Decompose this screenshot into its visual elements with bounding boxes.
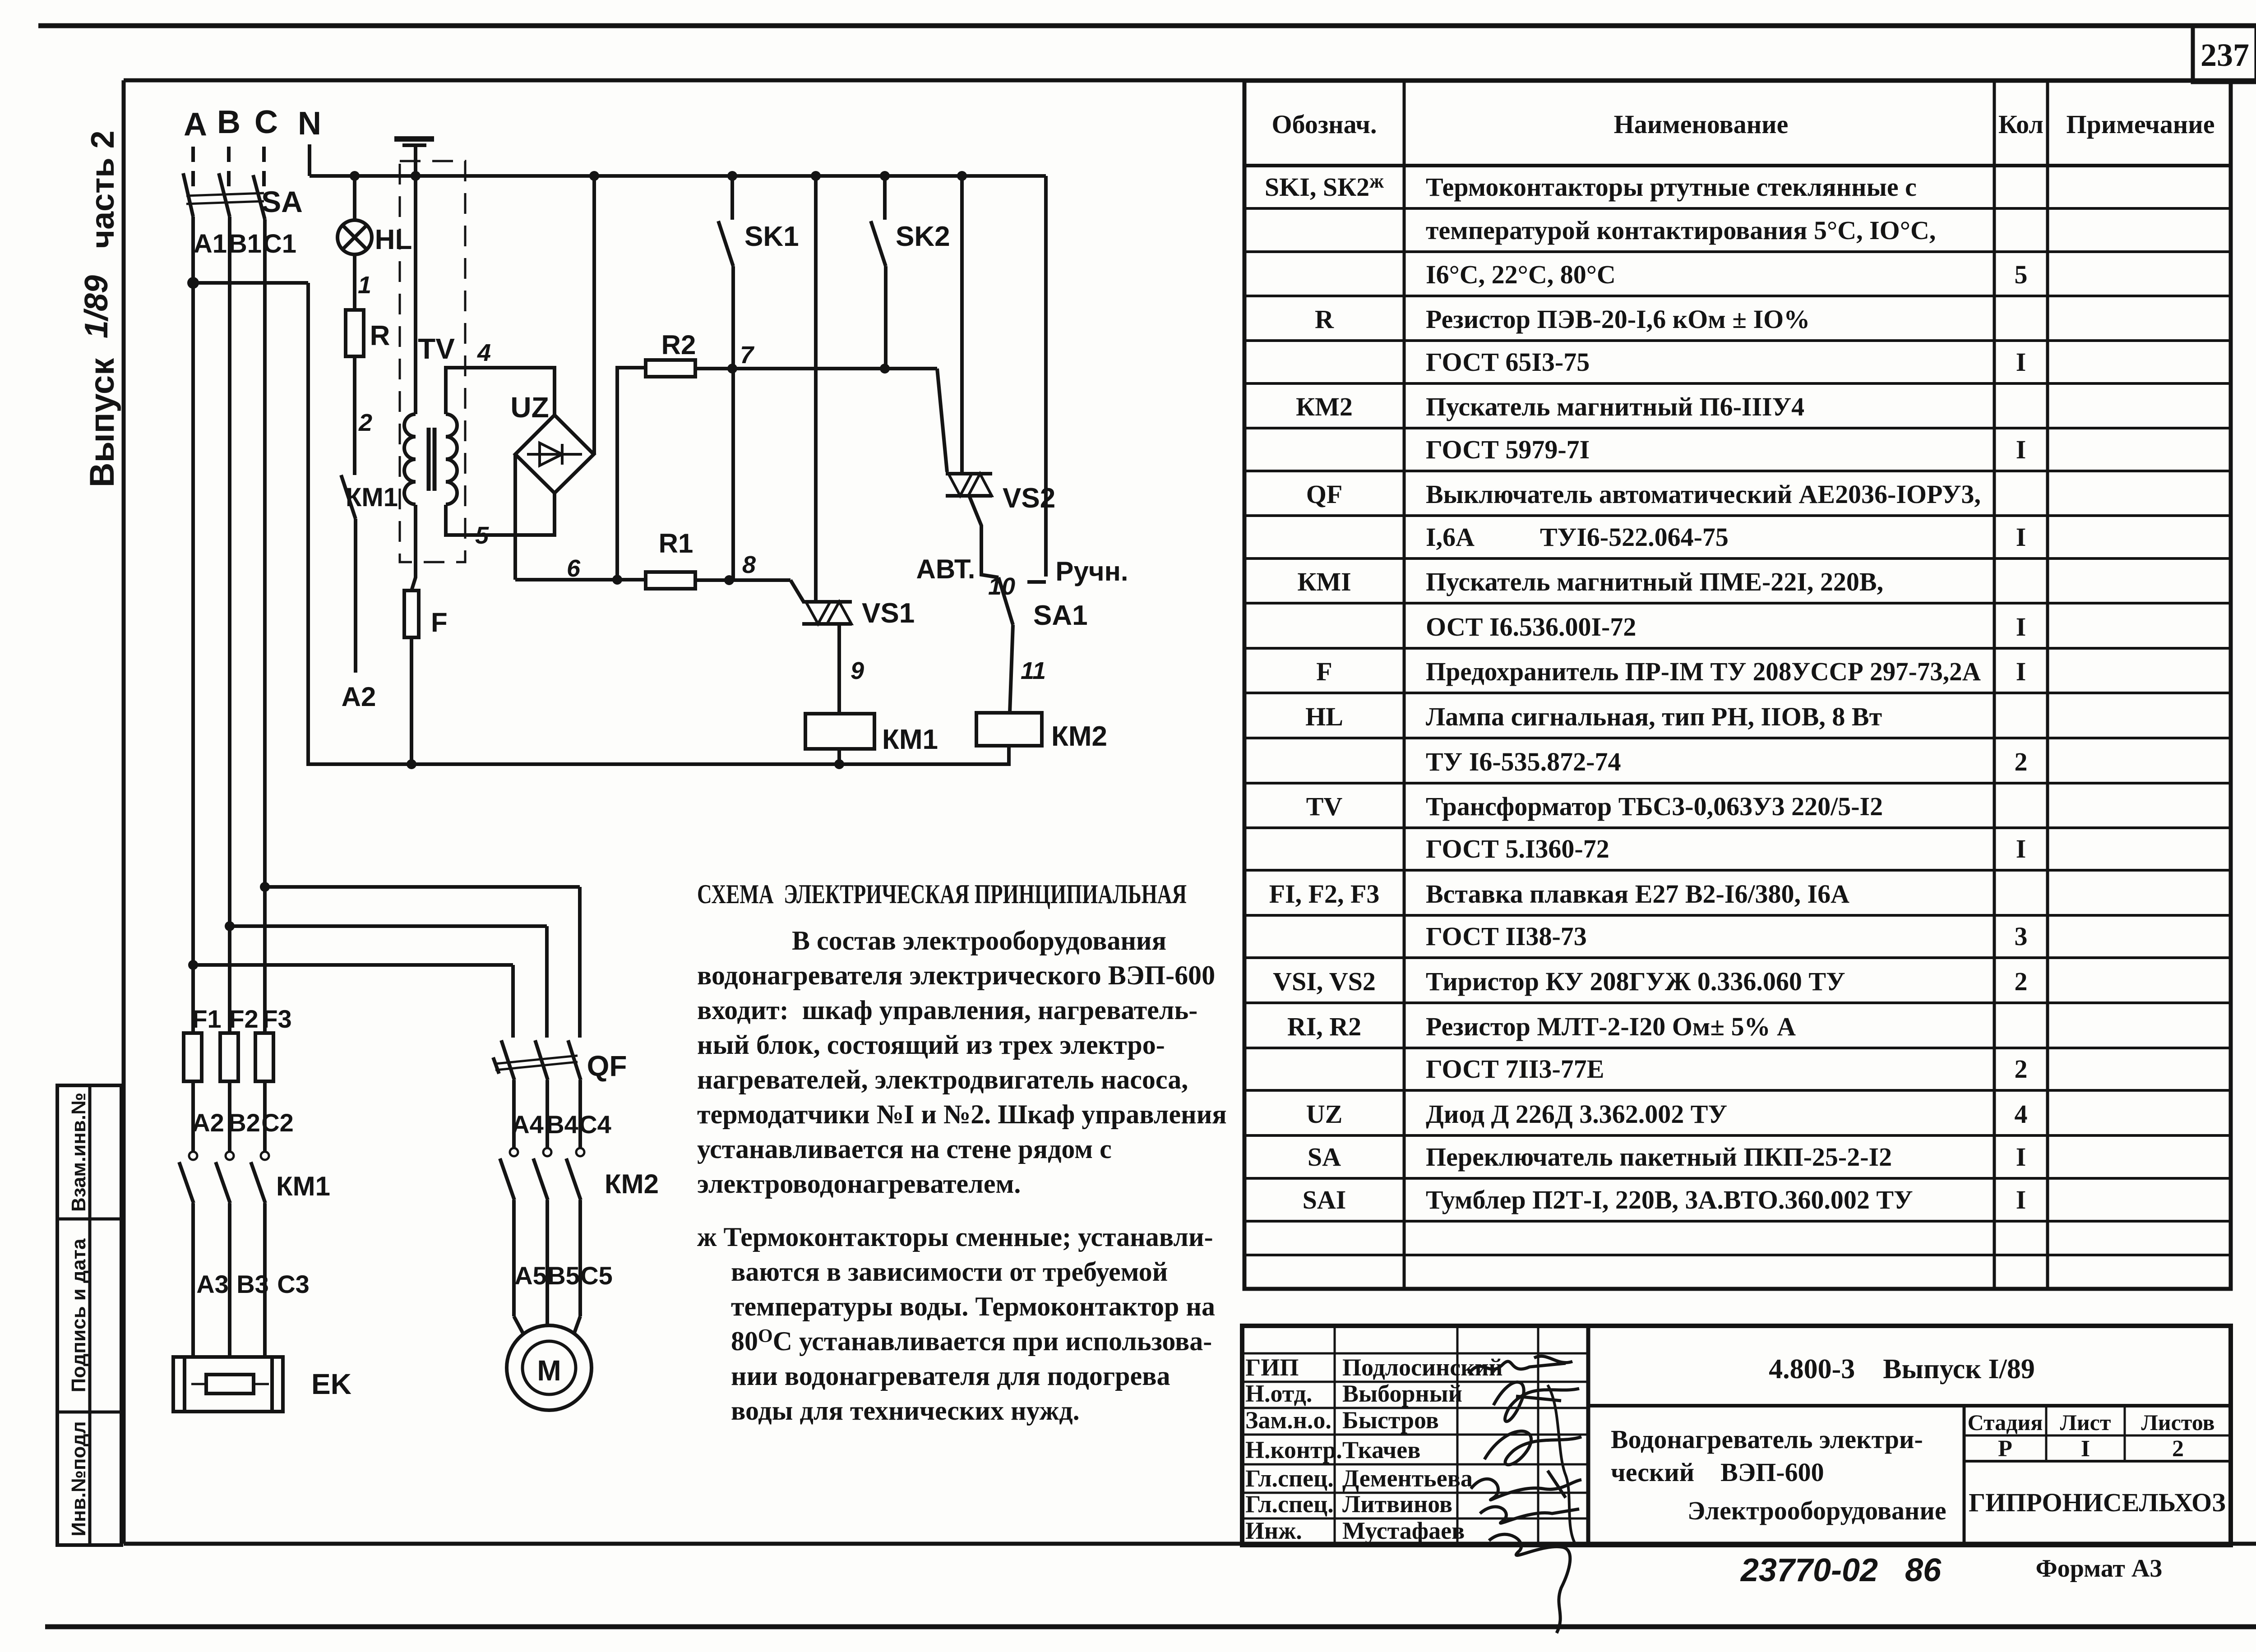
- svg-text:ный блок, состоящий из трех эл: ный блок, состоящий из трех электро-: [697, 1030, 1165, 1060]
- stamp label Взам.инв.№: [68, 1093, 90, 1212]
- wire top bus N y390: [310, 174, 1046, 178]
- thermal contact SK2: [883, 176, 887, 220]
- svg-text:КМ1: КМ1: [346, 483, 398, 512]
- svg-text:1/89: 1/89: [79, 275, 115, 338]
- svg-text:RI, R2: RI, R2: [1287, 1012, 1361, 1041]
- svg-text:В состав электрооборудования: В состав электрооборудования: [792, 926, 1166, 955]
- wire node 1: [353, 254, 356, 310]
- wires KM2 to motor: [512, 1200, 516, 1316]
- svg-text:I: I: [2016, 1185, 2026, 1214]
- svg-text:А: А: [184, 106, 207, 143]
- svg-text:входит: шкаф управления, нагр: входит: шкаф управления, нагреватель-: [697, 995, 1197, 1025]
- svg-text:Мустафаев: Мустафаев: [1342, 1517, 1465, 1544]
- svg-text:HL: HL: [1305, 702, 1343, 731]
- margin note 1/89 (rotated): [79, 275, 115, 338]
- svg-text:Гл.спец.: Гл.спец.: [1245, 1490, 1334, 1518]
- svg-text:Предохранитель ПР-IМ ТУ 208УСС: Предохранитель ПР-IМ ТУ 208УССР 297-73,2…: [1426, 657, 1981, 686]
- svg-text:воды для технических нужд.: воды для технических нужд.: [731, 1396, 1080, 1426]
- svg-text:Выпуск: Выпуск: [83, 358, 121, 487]
- margin note часть 2 (rotated): [85, 130, 121, 248]
- page top scan edge line: [38, 23, 2256, 28]
- svg-text:2: 2: [2015, 967, 2028, 996]
- svg-text:ГОСТ 7II3-77Е: ГОСТ 7II3-77Е: [1426, 1054, 1604, 1084]
- stamp label Подпись и дата: [68, 1238, 90, 1392]
- wire phase B below SA: [228, 217, 231, 1033]
- fuse F: [404, 591, 419, 637]
- svg-text:нии водонагревателя для подогр: нии водонагревателя для подогрева: [731, 1361, 1170, 1391]
- svg-text:5: 5: [475, 522, 489, 549]
- svg-text:Литвинов: Литвинов: [1342, 1490, 1452, 1518]
- svg-text:термодатчики №I и №2. Шкаф упр: термодатчики №I и №2. Шкаф управления: [697, 1099, 1227, 1129]
- svg-text:В2: В2: [228, 1108, 260, 1137]
- svg-text:QF: QF: [587, 1050, 627, 1082]
- svg-text:ОСТ I6.536.00I-72: ОСТ I6.536.00I-72: [1426, 612, 1636, 641]
- wire bottom control bus: [308, 746, 1009, 764]
- page bottom scan edge line: [45, 1624, 2256, 1629]
- svg-text:ГОСТ II38-73: ГОСТ II38-73: [1426, 922, 1587, 951]
- svg-text:ТУ I6-535.872-74: ТУ I6-535.872-74: [1426, 747, 1621, 776]
- svg-text:HL: HL: [375, 224, 412, 255]
- svg-text:Ткачев: Ткачев: [1342, 1436, 1420, 1463]
- svg-text:1: 1: [358, 272, 371, 299]
- svg-text:Подпись и дата: Подпись и дата: [68, 1238, 90, 1392]
- svg-text:ваются в зависимости от требуе: ваются в зависимости от требуемой: [731, 1257, 1168, 1287]
- svg-text:237: 237: [2201, 37, 2249, 73]
- svg-text:КМ1: КМ1: [276, 1171, 330, 1201]
- svg-text:СХЕМА ЭЛЕКТРИЧЕСКАЯ ПРИНЦИПИА: СХЕМА ЭЛЕКТРИЧЕСКАЯ ПРИНЦИПИАЛЬНАЯ: [697, 879, 1187, 909]
- svg-text:Кол: Кол: [1998, 110, 2043, 139]
- contactor coil KM2: [976, 713, 1042, 746]
- transformer TV primary lower wire: [411, 505, 416, 591]
- switch SA linkage bars: [186, 193, 264, 196]
- svg-text:Лампа сигнальная, тип РН, IIОВ: Лампа сигнальная, тип РН, IIОВ, 8 Вт: [1426, 702, 1882, 731]
- svg-text:Н.контр.: Н.контр.: [1245, 1436, 1342, 1463]
- svg-text:В: В: [217, 104, 240, 140]
- svg-text:А2: А2: [342, 682, 376, 712]
- svg-text:Инв.№подл: Инв.№подл: [68, 1421, 90, 1536]
- svg-text:I: I: [2016, 435, 2026, 464]
- svg-text:2: 2: [2015, 747, 2028, 776]
- svg-text:В5: В5: [547, 1261, 580, 1290]
- svg-text:С5: С5: [580, 1261, 613, 1290]
- svg-text:С4: С4: [579, 1110, 611, 1139]
- title block frame: [1242, 1326, 2231, 1545]
- wire node 11: [1010, 625, 1013, 713]
- svg-text:4: 4: [2015, 1099, 2028, 1129]
- svg-text:Водонагреватель электри-: Водонагреватель электри-: [1611, 1425, 1923, 1454]
- svg-text:F: F: [431, 607, 448, 637]
- svg-text:А5: А5: [514, 1261, 547, 1290]
- svg-text:ж Термоконтакторы сменные; уст: ж Термоконтакторы сменные; устанавли-: [697, 1222, 1213, 1252]
- svg-text:SK2: SK2: [896, 221, 950, 252]
- svg-text:F: F: [1316, 657, 1332, 686]
- svg-text:SА: SА: [1308, 1142, 1341, 1172]
- svg-text:F3: F3: [262, 1005, 291, 1033]
- switch SA pole A blade: [183, 173, 193, 217]
- resistor R1: [646, 572, 695, 589]
- wire node 8: [695, 578, 791, 582]
- svg-text:23770-02 86: 23770-02 86: [1740, 1552, 1942, 1588]
- svg-text:А2: А2: [192, 1108, 224, 1137]
- svg-text:F2: F2: [229, 1005, 258, 1033]
- contactor KM2 main contacts: [510, 1148, 518, 1156]
- wire node 10: [969, 496, 999, 577]
- svg-text:Тумблер П2Т-I, 220В, 3А.ВТО.36: Тумблер П2Т-I, 220В, 3А.ВТО.360.002 ТУ: [1426, 1185, 1913, 1214]
- wire feed B to QF: [230, 924, 547, 928]
- svg-text:N: N: [298, 106, 321, 142]
- svg-text:11: 11: [1021, 657, 1046, 684]
- wire node 2: [353, 356, 356, 475]
- wires QF to KM2: [512, 1080, 516, 1148]
- transformer TV primary wire: [414, 176, 417, 414]
- wire node 7: [695, 367, 937, 370]
- svg-text:Взам.инв.№: Взам.инв.№: [68, 1093, 90, 1212]
- svg-text:2: 2: [2015, 1054, 2028, 1084]
- svg-text:I: I: [2016, 612, 2026, 641]
- resistor R: [346, 310, 364, 356]
- switch SA pole B blade: [219, 173, 230, 217]
- svg-text:Н.отд.: Н.отд.: [1245, 1380, 1312, 1407]
- wire control tap bus y627: [191, 281, 308, 285]
- svg-text:ГИП: ГИП: [1245, 1354, 1299, 1381]
- svg-text:Листов: Листов: [2141, 1410, 2215, 1435]
- svg-text:Быстров: Быстров: [1342, 1407, 1439, 1434]
- signature grid: [1242, 1352, 1588, 1355]
- svg-text:Гл.спец.: Гл.спец.: [1245, 1465, 1334, 1492]
- margin note Выпуск (rotated): [83, 358, 121, 487]
- svg-text:SАI: SАI: [1303, 1185, 1346, 1214]
- wire to node A2: [354, 519, 357, 673]
- svg-text:С2: С2: [261, 1108, 294, 1137]
- svg-text:Электрооборудование: Электрооборудование: [1687, 1496, 1946, 1525]
- svg-text:Дементьева: Дементьева: [1342, 1465, 1473, 1492]
- svg-text:В4: В4: [546, 1110, 578, 1139]
- svg-text:КМ2: КМ2: [605, 1169, 659, 1199]
- svg-text:электроводонагревателем.: электроводонагревателем.: [697, 1169, 1021, 1199]
- svg-text:5: 5: [2015, 260, 2028, 289]
- left stamp column box: [57, 1085, 121, 1545]
- ground symbol: [394, 136, 434, 142]
- contact KM1 aux: [341, 475, 356, 519]
- svg-text:Трансформатор ТБС3-0,063У3 220: Трансформатор ТБС3-0,063У3 220/5-I2: [1426, 792, 1883, 821]
- svg-text:SKI, SК2ж: SKI, SК2ж: [1265, 170, 1384, 202]
- svg-text:С: С: [254, 104, 278, 140]
- svg-text:Резистор МЛТ-2-I20 Ом± 5% А: Резистор МЛТ-2-I20 Ом± 5% А: [1426, 1012, 1796, 1041]
- svg-text:Формат А3: Формат А3: [2036, 1555, 2163, 1583]
- motor M: [507, 1325, 592, 1410]
- svg-text:Примечание: Примечание: [2066, 110, 2215, 139]
- svg-text:КМI: КМI: [1297, 567, 1351, 596]
- wire F to bottom bus: [410, 637, 413, 764]
- wire control feed vertical x683: [306, 283, 310, 761]
- svg-text:3: 3: [2015, 922, 2028, 951]
- svg-text:ГОСТ 5979-7I: ГОСТ 5979-7I: [1426, 435, 1590, 464]
- svg-text:С3: С3: [277, 1270, 310, 1298]
- svg-text:Р: Р: [1998, 1436, 2012, 1462]
- svg-text:нагревателей, электродвигатель: нагревателей, электродвигатель насоса,: [697, 1065, 1188, 1094]
- svg-text:R1: R1: [659, 528, 693, 558]
- svg-text:I: I: [2016, 834, 2026, 863]
- svg-text:8: 8: [742, 551, 756, 578]
- svg-text:TV: TV: [418, 332, 455, 365]
- svg-text:ГОСТ 65I3-75: ГОСТ 65I3-75: [1426, 347, 1590, 377]
- wires KM1 to EK: [191, 1203, 195, 1357]
- svg-text:I: I: [2016, 1142, 2026, 1172]
- transformer TV core: [427, 428, 431, 491]
- switch SA pole C blade: [253, 175, 265, 219]
- drawing frame: [124, 78, 2256, 83]
- svg-text:температуры воды. Термоконтакт: температуры воды. Термоконтактор на: [731, 1292, 1215, 1321]
- transformer TV secondary winding: [446, 414, 457, 437]
- wire node 9: [837, 624, 841, 714]
- wire R2 left drop: [617, 368, 646, 580]
- svg-text:температурой контактирования 5: температурой контактирования 5°С, IО°С,: [1426, 216, 1936, 245]
- wire VS1 anode from bus: [814, 176, 818, 602]
- svg-text:UZ: UZ: [510, 391, 549, 424]
- wire phase A below SA: [191, 217, 195, 1033]
- breaker QF bar: [495, 1056, 578, 1064]
- svg-text:I: I: [2016, 522, 2026, 552]
- svg-text:4.800-3 Выпуск I/89: 4.800-3 Выпуск I/89: [1769, 1354, 2035, 1384]
- wire node 4: [446, 368, 555, 415]
- svg-text:В3: В3: [236, 1270, 269, 1298]
- triac VS1: [802, 600, 852, 604]
- svg-text:R: R: [1315, 305, 1334, 334]
- triac VS2: [946, 472, 992, 475]
- svg-text:Резистор ПЭВ-20-I,6 кОм ± IО%: Резистор ПЭВ-20-I,6 кОм ± IО%: [1426, 305, 1810, 334]
- svg-text:ческий ВЭП-600: ческий ВЭП-600: [1611, 1458, 1824, 1487]
- svg-text:АВТ.: АВТ.: [916, 554, 975, 584]
- svg-text:часть 2: часть 2: [85, 130, 121, 248]
- wire node 5: [446, 493, 555, 535]
- svg-text:QF: QF: [1306, 480, 1343, 509]
- svg-text:Ручн.: Ручн.: [1055, 556, 1128, 586]
- svg-text:SA1: SA1: [1033, 600, 1088, 631]
- heater EK: [173, 1357, 283, 1412]
- svg-text:F1: F1: [192, 1005, 221, 1033]
- svg-text:Лист: Лист: [2060, 1410, 2111, 1435]
- svg-text:Выключатель автоматический АЕ2: Выключатель автоматический АЕ2036-IОРУ3,: [1426, 480, 1981, 509]
- svg-text:I,6А ТУI6-522.064-75: I,6А ТУI6-522.064-75: [1426, 522, 1729, 552]
- svg-text:Инж.: Инж.: [1245, 1517, 1302, 1544]
- wire feed C to QF: [265, 885, 580, 889]
- svg-text:SK1: SK1: [744, 221, 799, 252]
- svg-text:TV: TV: [1306, 792, 1343, 821]
- parts table frame: [1244, 81, 2231, 1289]
- svg-text:Пускатель магнитный П6-IIIУ4: Пускатель магнитный П6-IIIУ4: [1426, 392, 1804, 421]
- svg-text:КМ1: КМ1: [882, 724, 938, 755]
- svg-text:6: 6: [567, 555, 581, 582]
- svg-text:Стадия: Стадия: [1968, 1410, 2043, 1435]
- wire Ручн branch from bus: [1044, 176, 1048, 577]
- breaker QF blades: [501, 1040, 514, 1080]
- svg-text:А4: А4: [511, 1110, 544, 1139]
- signatures squiggles: [1469, 1356, 1572, 1374]
- parts table row lines: [1244, 207, 2231, 210]
- svg-text:А1: А1: [194, 229, 227, 258]
- svg-text:I: I: [2016, 347, 2026, 377]
- svg-text:Зам.н.о.: Зам.н.о.: [1245, 1407, 1331, 1434]
- rectifier bridge UZ: [515, 415, 594, 493]
- svg-text:9: 9: [851, 657, 864, 684]
- wire phase C below SA: [263, 219, 267, 1033]
- contactor KM1 main contacts: [189, 1152, 197, 1160]
- svg-text:Переключатель пакетный ПКП-25-: Переключатель пакетный ПКП-25-2-I2: [1426, 1142, 1892, 1172]
- svg-text:Термоконтакторы ртутные стекля: Термоконтакторы ртутные стеклянные с: [1426, 172, 1917, 202]
- svg-text:2: 2: [358, 409, 372, 436]
- wire gate VS1: [791, 580, 804, 602]
- svg-text:7: 7: [740, 341, 755, 369]
- wire node 6: [515, 578, 646, 581]
- svg-text:VSI, VS2: VSI, VS2: [1273, 967, 1376, 996]
- svg-text:EK: EK: [311, 1368, 351, 1400]
- svg-text:Пускатель магнитный ПМЕ-22I, 2: Пускатель магнитный ПМЕ-22I, 220В,: [1426, 567, 1883, 596]
- svg-text:КМ2: КМ2: [1051, 721, 1107, 752]
- svg-text:80ОС устанавливается при испол: 80ОС устанавливается при использова-: [731, 1326, 1212, 1356]
- svg-text:R2: R2: [661, 330, 696, 360]
- svg-text:R: R: [370, 320, 390, 351]
- svg-text:А3: А3: [196, 1270, 229, 1298]
- svg-text:устанавливается на стене рядом: устанавливается на стене рядом с: [697, 1134, 1112, 1164]
- svg-text:I: I: [2081, 1436, 2090, 1462]
- svg-text:КМ2: КМ2: [1296, 392, 1353, 421]
- svg-text:VS1: VS1: [862, 598, 915, 629]
- wires below fuses: [191, 1081, 195, 1152]
- lamp HL wire from bus: [353, 176, 356, 220]
- svg-text:водонагревателя электрического: водонагревателя электрического ВЭП-600: [697, 960, 1215, 990]
- transformer TV primary winding: [404, 414, 416, 437]
- svg-text:С1: С1: [263, 229, 296, 258]
- svg-text:4: 4: [477, 339, 491, 366]
- svg-text:М: М: [537, 1354, 561, 1387]
- lamp HL: [337, 220, 372, 254]
- transformer TV dashed enclosure: [400, 161, 465, 562]
- stage mini table: [1963, 1406, 1966, 1545]
- svg-text:Диод Д 226Д 3.362.002 ТУ: Диод Д 226Д 3.362.002 ТУ: [1426, 1099, 1727, 1129]
- svg-text:Наименование: Наименование: [1614, 110, 1789, 139]
- wire UZ left vertex down: [513, 454, 517, 580]
- svg-text:ГОСТ 5.I360-72: ГОСТ 5.I360-72: [1426, 834, 1609, 863]
- svg-text:Выборный: Выборный: [1342, 1380, 1462, 1407]
- thermal contact SK1: [730, 176, 734, 220]
- svg-text:UZ: UZ: [1306, 1099, 1343, 1129]
- stamp label Инв.№подл: [68, 1421, 90, 1536]
- svg-text:2: 2: [2172, 1436, 2184, 1462]
- contactor coil KM1: [805, 714, 874, 749]
- switch SA1 blade: [999, 577, 1013, 625]
- wire gate VS2: [937, 369, 947, 472]
- svg-text:I6°С, 22°С, 80°С: I6°С, 22°С, 80°С: [1426, 260, 1616, 289]
- svg-text:Обознач.: Обознач.: [1272, 110, 1377, 139]
- svg-text:ГИПРОНИСЕЛЬХОЗ: ГИПРОНИСЕЛЬХОЗ: [1969, 1488, 2225, 1517]
- wire UZ right vertex to bus: [592, 176, 596, 454]
- svg-text:SA: SA: [261, 185, 303, 218]
- svg-text:I: I: [2016, 657, 2026, 686]
- resistor R2: [646, 360, 695, 377]
- wire VS2 anode from bus: [960, 176, 964, 474]
- wire feed A to QF: [193, 963, 513, 967]
- svg-text:Тиристор КУ 208ГУЖ 0.336.060 Т: Тиристор КУ 208ГУЖ 0.336.060 ТУ: [1426, 967, 1845, 996]
- svg-text:В1: В1: [228, 229, 262, 258]
- page number box 237: [2193, 26, 2256, 82]
- svg-text:FI, F2, F3: FI, F2, F3: [1269, 879, 1380, 909]
- svg-text:Вставка плавкая Е27 В2-I6/380,: Вставка плавкая Е27 В2-I6/380, I6А: [1426, 879, 1849, 909]
